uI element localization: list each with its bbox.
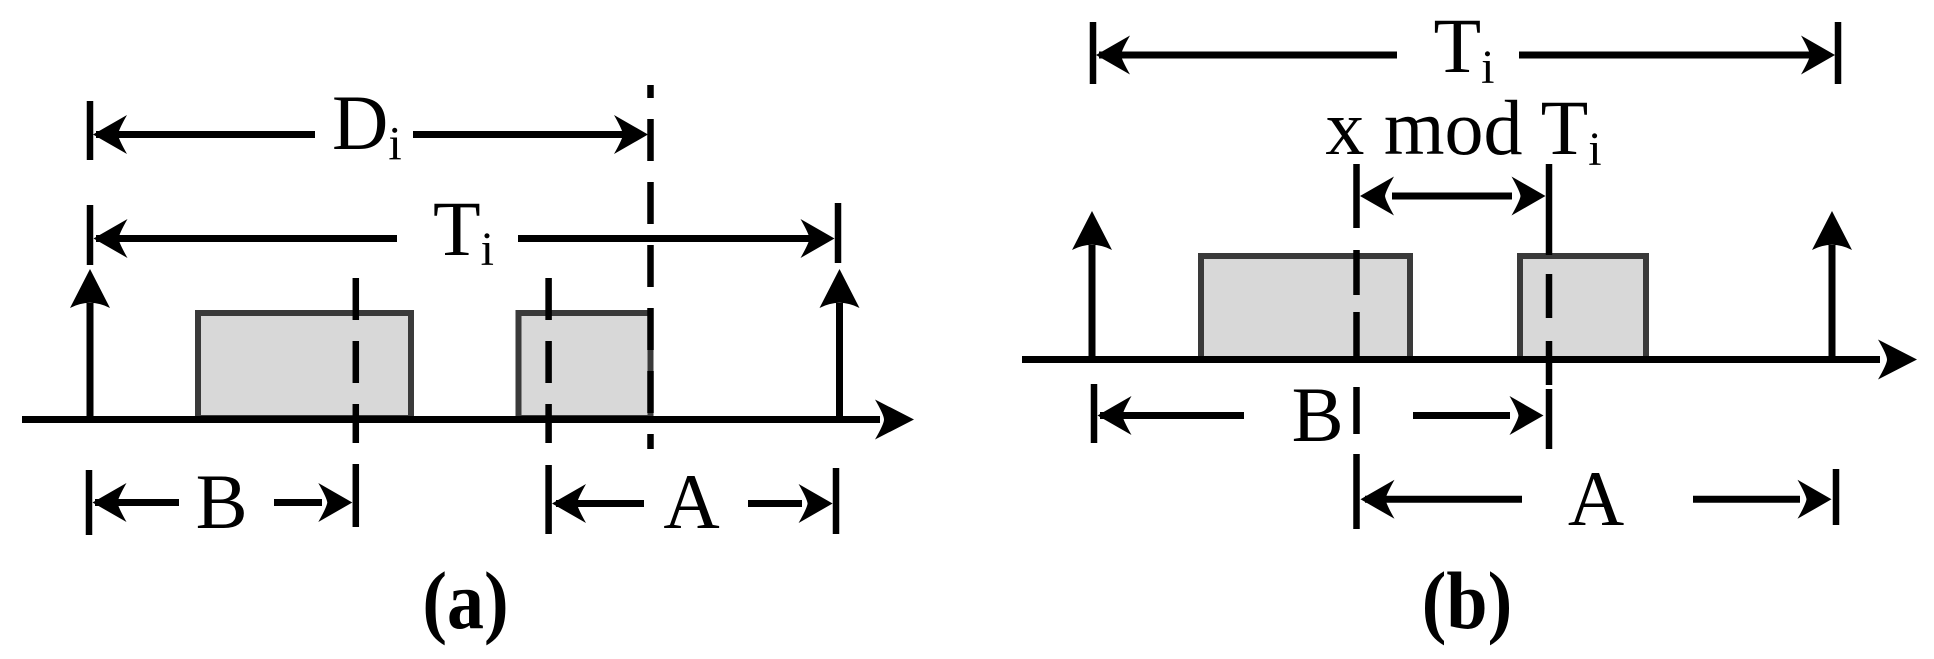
svg-text:(b): (b) [1422,556,1512,646]
svg-text:x mod Ti: x mod Ti [1325,84,1601,176]
svg-text:A: A [663,458,719,545]
svg-text:A: A [1568,455,1624,542]
svg-text:(a): (a) [422,556,508,646]
svg-text:B: B [196,458,248,545]
svg-text:B: B [1292,371,1344,458]
